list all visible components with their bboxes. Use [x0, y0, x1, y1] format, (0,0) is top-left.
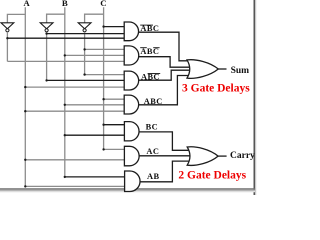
- wire G7 output to carry OR: [140, 161, 189, 182]
- wire A to inverter U1: [7, 14, 25, 22]
- wire input B vertical: [64, 7, 66, 177]
- svg-text:AC: AC: [146, 147, 159, 156]
- wire G4 output to sum OR: [139, 76, 189, 105]
- AND gate G7: [125, 171, 140, 192]
- AND gate G2: [124, 46, 139, 65]
- junction B/G5: [64, 134, 66, 136]
- OR gate carry: [187, 147, 218, 166]
- AND gate G5: [124, 122, 139, 141]
- junction A/G6: [24, 159, 26, 161]
- AND gate G3: [124, 71, 138, 90]
- wire B to G4 input: [65, 104, 125, 106]
- wire C to G4 input: [104, 98, 125, 100]
- junction B/G2: [64, 54, 66, 56]
- wire A to G7 input: [25, 185, 125, 187]
- junction B/G7: [64, 176, 66, 178]
- wire B to inverter U2: [47, 14, 65, 23]
- junction Cbar/G3: [83, 73, 85, 75]
- junction A/G3: [24, 86, 26, 88]
- wire C to G6 input: [104, 148, 125, 150]
- wire Cbar vertical: [84, 32, 86, 75]
- wire A to G6 input: [25, 159, 125, 161]
- wire B to G5 input: [65, 134, 125, 136]
- svg-text:AB: AB: [147, 172, 159, 181]
- svg-text:C: C: [100, 0, 106, 8]
- wire sum OR output: [218, 68, 227, 70]
- svg-text:Sum: Sum: [231, 66, 250, 76]
- label G2 AbarBCbar: [140, 47, 159, 56]
- inverter U1 (A to Abar): [1, 23, 14, 32]
- wire A to G3 input: [25, 86, 125, 88]
- svg-text:A: A: [23, 0, 30, 8]
- wire G6 output to carry OR: [139, 155, 189, 157]
- wire G2 output to sum OR: [139, 57, 190, 67]
- wire Cbar to G3 input: [85, 74, 125, 76]
- wire Bbar to G3 input: [47, 79, 125, 81]
- wire B to G7 input: [65, 176, 126, 178]
- wire input C vertical: [103, 7, 105, 149]
- svg-text:Carry: Carry: [230, 151, 255, 161]
- wire input A vertical: [24, 7, 26, 186]
- wire C to inverter U3: [85, 14, 104, 23]
- AND gate G6: [124, 146, 139, 166]
- junction A/G7: [24, 185, 26, 187]
- junction Abar/G1: [6, 37, 8, 39]
- junction A/G4: [24, 110, 26, 112]
- label G1 AbarBbarC: [140, 24, 159, 33]
- right border: [253, 0, 255, 195]
- svg-text:B: B: [62, 0, 68, 8]
- label G3 ABbarCbar: [141, 73, 160, 82]
- junction C/G5: [102, 124, 104, 126]
- wire Abar to G1 input: [7, 37, 124, 39]
- AND gate G1: [124, 22, 138, 41]
- wire carry OR output: [218, 155, 227, 157]
- wire Abar vertical: [6, 32, 8, 61]
- wire B to G2 input: [65, 54, 125, 56]
- junction C/G6: [102, 148, 104, 150]
- AND gate G4: [124, 95, 138, 114]
- junction C/G1: [102, 25, 104, 27]
- junction Bbar/G1: [45, 32, 47, 34]
- wire Cbar to G2 input: [85, 48, 125, 50]
- svg-text:2 Gate Delays: 2 Gate Delays: [178, 169, 246, 181]
- wire Bbar to G1 input: [47, 33, 125, 35]
- bottom border: [0, 188, 255, 190]
- OR gate sum: [187, 60, 218, 79]
- junction B/G4: [64, 104, 66, 106]
- svg-text:3 Gate Delays: 3 Gate Delays: [182, 82, 250, 94]
- wire Bbar vertical: [46, 32, 48, 80]
- wire G1 output to sum OR: [139, 32, 190, 61]
- junction Cbar/G2: [83, 48, 85, 50]
- junction C/G4: [102, 98, 104, 100]
- wire C to G1 input: [104, 26, 125, 28]
- wire G5 output to carry OR: [139, 132, 189, 150]
- junction Bbar/G3: [45, 79, 47, 81]
- wire G3 output to sum OR: [139, 70, 190, 80]
- svg-text:BC: BC: [146, 123, 158, 132]
- wire C to G5 input: [104, 124, 125, 126]
- wire A to G4 input: [25, 110, 125, 112]
- wire Abar to G2 input: [7, 60, 124, 62]
- inverter U3 (C to Cbar): [78, 23, 91, 32]
- inverter U2 (B to Bbar): [40, 23, 53, 32]
